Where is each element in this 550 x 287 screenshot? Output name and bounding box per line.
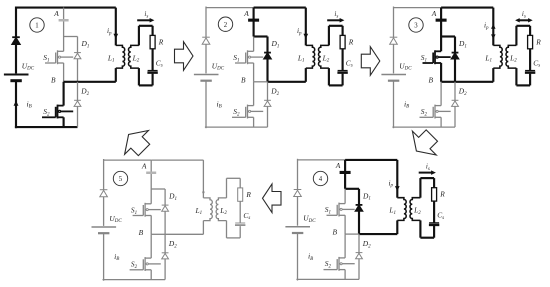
current arrow i_p double [491, 24, 496, 39]
transistor S1 [45, 50, 73, 64]
wire node A branch [440, 8, 442, 37]
current arrow i_B [14, 101, 19, 106]
capacitor bar at node A [340, 171, 351, 174]
diode D2 line [454, 82, 456, 127]
wire S2 drain [63, 82, 65, 106]
inductor L2 secondary winding [410, 198, 420, 221]
circuit state 1 [4, 7, 164, 129]
wire S2 source [150, 270, 152, 280]
diode D1 [452, 53, 459, 59]
wire S1 drain [440, 37, 442, 52]
wire Cs to bottom [433, 226, 435, 238]
wire battery to bottom rail [103, 233, 105, 281]
wire node B left [441, 81, 455, 83]
wire secondary right upper [239, 178, 241, 188]
capacitor bar at node A [436, 19, 447, 22]
svg-text:B: B [332, 228, 337, 237]
battery U_DC [285, 227, 310, 233]
wire S2 source [440, 117, 442, 127]
wire L2 top lead [515, 26, 517, 46]
wire primary lead [202, 160, 204, 198]
circuit state 3 [381, 7, 541, 129]
diode D2 [74, 100, 81, 106]
circuit state 2 [194, 7, 354, 129]
wire node B [78, 81, 116, 83]
diode D1 line [454, 37, 456, 82]
wire secondary bottom [420, 237, 434, 239]
diode left clamp [202, 37, 210, 44]
transistor S2 [232, 105, 263, 119]
diode D1 line [77, 37, 79, 82]
wire S1 drain [150, 189, 152, 204]
wire left side upper [205, 7, 207, 38]
wire S1 source [344, 215, 346, 234]
diode left clamp [12, 37, 20, 44]
wire jog A to D1 [64, 36, 78, 38]
wire node A branch [63, 8, 65, 37]
wire node B left [345, 233, 359, 235]
wire top rail right [64, 7, 116, 9]
inductor L1 primary winding [203, 198, 212, 221]
wire S1 source [253, 63, 255, 82]
wire top rail left [298, 159, 346, 161]
capacitor bar at node A [59, 19, 69, 22]
svg-text:B: B [428, 75, 433, 84]
wire top rail left [104, 159, 152, 161]
wire Cs to bottom [239, 226, 241, 238]
wire node B [455, 81, 493, 83]
svg-text:A: A [431, 9, 437, 18]
transistor S1 [235, 50, 263, 64]
wire secondary bottom [227, 237, 241, 239]
diode D1 line [164, 189, 166, 234]
resistor R [150, 35, 155, 48]
wire primary lead [115, 8, 117, 46]
capacitor Cs [235, 223, 245, 225]
wire S2 source [253, 117, 255, 127]
capacitor Cs [525, 71, 535, 73]
wire top rail right [254, 7, 306, 9]
svg-text:B: B [139, 228, 144, 237]
wire L1 to node B [202, 221, 204, 235]
wire Cs to bottom [152, 74, 154, 86]
svg-text:5: 5 [119, 176, 123, 183]
wire bottom rail [15, 126, 78, 128]
wire L1 to node B [396, 220, 398, 234]
current arrow i_p [303, 34, 308, 39]
capacitor Cs [429, 223, 439, 225]
transition arrow state 3 to 4 [404, 124, 443, 163]
wire node B [268, 81, 306, 83]
diode D1 [74, 53, 81, 59]
wire secondary right upper [433, 178, 435, 188]
wire left side upper [15, 7, 17, 38]
wire R to Cs [529, 49, 531, 70]
wire secondary top [420, 177, 434, 179]
inductor L2 secondary winding [129, 45, 139, 68]
resistor R [238, 188, 243, 201]
battery U_DC [4, 75, 29, 81]
diode D2 line [267, 82, 269, 127]
svg-text:R: R [535, 37, 541, 46]
diode D2 line [77, 82, 79, 127]
wire node B [165, 233, 203, 235]
diode D1 line [266, 37, 268, 82]
wire left side upper [103, 159, 105, 190]
svg-text:R: R [439, 190, 445, 199]
wire S2 drain [440, 82, 442, 106]
wire R to Cs [433, 201, 435, 222]
wire S1 source [150, 215, 152, 234]
svg-text:R: R [158, 37, 164, 46]
inductor L1 primary winding [306, 45, 315, 68]
wire jog A to D1 [345, 188, 359, 190]
current arrow i_p [113, 34, 118, 39]
diode left clamp [390, 37, 398, 44]
wire primary lead [492, 8, 494, 46]
wire L2 bottom lead [328, 68, 330, 85]
transistor S2 [420, 105, 451, 119]
wire top rail right [441, 7, 493, 9]
wire top rail left [394, 7, 442, 9]
wire R to Cs [239, 201, 241, 222]
current arrow i_s [137, 18, 154, 23]
wire S1 drain [63, 37, 65, 52]
capacitor Cs [147, 71, 157, 73]
diode D2 [264, 100, 271, 106]
transistor S2 [324, 257, 355, 271]
wire bottom rail [205, 126, 268, 128]
wire S1 drain [253, 37, 255, 52]
wire node B [359, 233, 397, 235]
battery U_DC [381, 75, 406, 81]
wire bottom rail [296, 278, 359, 280]
wire bottom rail [103, 279, 166, 281]
diode D1 [356, 205, 363, 211]
wire primary lead [396, 160, 398, 198]
inductor L2 secondary winding [216, 198, 226, 221]
svg-text:A: A [141, 161, 147, 170]
wire L2 bottom lead [515, 68, 517, 85]
inductor L1 primary winding [397, 198, 406, 221]
current arrow i_p [395, 186, 400, 191]
wire L2 top lead [328, 26, 330, 46]
diode D2 [162, 253, 169, 259]
wire secondary bottom [516, 84, 530, 86]
diode D2 line [164, 234, 166, 279]
wire secondary bottom [329, 84, 343, 86]
circuit state 5 [92, 159, 252, 281]
transition arrow state 4 to 5 [263, 184, 282, 213]
svg-text:3: 3 [414, 23, 418, 30]
transition arrow state 2 to 3 [361, 47, 380, 76]
wire Cs to bottom [342, 74, 344, 86]
wire top rail left [206, 7, 254, 9]
transistor S2 [130, 257, 161, 271]
inductor L2 secondary winding [506, 45, 516, 68]
wire left side to battery [393, 44, 395, 73]
inductor L2 secondary winding [319, 45, 329, 68]
diode D1 [264, 53, 271, 59]
circuit state 4 [285, 159, 445, 281]
wire secondary top [329, 25, 343, 27]
wire battery to bottom rail [205, 81, 207, 129]
current arrow i_p small [202, 192, 205, 195]
wire L2 bottom lead [138, 68, 140, 85]
wire bottom rail [392, 126, 455, 128]
svg-text:A: A [53, 9, 59, 18]
wire secondary top [139, 25, 153, 27]
capacitor Cs [337, 71, 347, 73]
wire S2 drain [150, 234, 152, 258]
svg-text:A: A [243, 9, 249, 18]
wire left side to battery [205, 44, 207, 73]
current arrow i_s double [515, 18, 533, 22]
wire top rail left [16, 7, 64, 9]
state circle 4 [313, 171, 327, 185]
wire node A branch [150, 160, 152, 189]
wire node A branch [253, 8, 255, 37]
state circle 2 [218, 17, 232, 31]
wire node B left [254, 81, 268, 83]
wire secondary top [516, 25, 530, 27]
wire S1 drain [344, 189, 346, 204]
wire battery to bottom rail [393, 81, 395, 129]
wire secondary top [227, 177, 241, 179]
state circle 3 [409, 18, 423, 32]
state circle 1 [30, 18, 44, 32]
wire secondary right upper [342, 26, 344, 36]
wire left side to battery [103, 197, 105, 226]
svg-text:R: R [245, 190, 251, 199]
wire secondary right upper [152, 26, 154, 36]
svg-text:4: 4 [319, 176, 323, 183]
wire jog A to D1 [441, 35, 455, 37]
battery U_DC [92, 227, 117, 233]
wire L1 to node B [492, 68, 494, 82]
wire left side to battery [15, 44, 17, 73]
wire secondary bottom [139, 84, 153, 86]
transistor S2 [42, 105, 73, 119]
diode D1 line [358, 189, 360, 234]
capacitor bar at node A [146, 172, 156, 175]
wire node B left [151, 233, 165, 235]
resistor R [528, 35, 533, 48]
wire node B left [64, 81, 78, 83]
inductor L1 primary winding [493, 45, 502, 68]
inductor L1 primary winding [116, 45, 125, 68]
wire S2 drain [344, 234, 346, 258]
state circle 5 [113, 171, 127, 185]
wire R to Cs [152, 49, 154, 70]
wire primary lead [305, 8, 307, 46]
svg-text:A: A [335, 161, 341, 170]
wire node A branch [344, 160, 346, 189]
wire L2 bottom lead [419, 220, 421, 237]
wire L2 top lead [419, 178, 421, 198]
wire left side upper [393, 7, 395, 38]
svg-text:2: 2 [224, 22, 228, 29]
wire L2 top lead [226, 178, 228, 198]
diode D2 [356, 253, 363, 259]
wire L1 to node B [305, 68, 307, 82]
diode D1 [162, 205, 169, 211]
wire battery to bottom rail [15, 81, 17, 129]
wire R to Cs [342, 49, 344, 70]
wire L2 top lead [138, 26, 140, 46]
wire left side upper [297, 159, 299, 190]
transistor S1 [423, 50, 451, 64]
resistor R [340, 35, 345, 48]
wire jog A to D1 [254, 35, 268, 37]
transistor S1 [133, 203, 161, 217]
diode D2 [452, 100, 459, 106]
wire S2 source [63, 117, 65, 127]
current arrow i_s [327, 18, 344, 23]
svg-text:B: B [241, 75, 246, 84]
battery U_DC [194, 75, 219, 81]
wire S1 source [440, 63, 442, 82]
diode D2 line [358, 234, 360, 279]
current arrow i_s [419, 170, 436, 175]
svg-text:B: B [51, 75, 56, 84]
wire Cs to bottom [529, 74, 531, 86]
transition arrow state 1 to 2 [175, 42, 194, 71]
svg-text:1: 1 [35, 23, 38, 30]
wire S2 drain [253, 82, 255, 106]
wire S2 source [344, 270, 346, 280]
wire top rail right [345, 159, 397, 161]
wire L1 to node B [115, 68, 117, 82]
transition arrow state 5 to 1 [117, 123, 156, 162]
wire top rail right [151, 159, 203, 161]
resistor R [432, 188, 437, 201]
wire secondary right upper [529, 26, 531, 36]
wire L2 bottom lead [226, 221, 228, 238]
diode left clamp [100, 190, 108, 197]
svg-text:R: R [348, 37, 354, 46]
wire battery to bottom rail [297, 233, 299, 281]
diode left clamp [294, 190, 302, 197]
wire S1 source [63, 63, 65, 82]
wire left side to battery [297, 197, 299, 226]
transistor S1 [327, 203, 355, 217]
capacitor bar at node A [248, 19, 259, 22]
wire jog A to D1 [151, 188, 165, 190]
